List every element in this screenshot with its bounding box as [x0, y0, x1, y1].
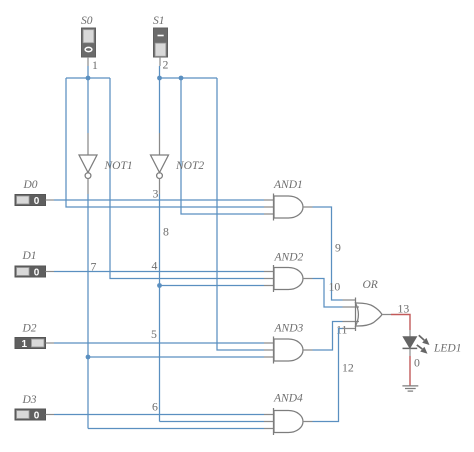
and gate AND3: [264, 337, 313, 364]
svg-text:0: 0: [34, 196, 40, 207]
D0 pin: [46, 199, 55, 201]
svg-text:9: 9: [335, 241, 341, 255]
led LED1: [403, 330, 462, 356]
wire S1 bus horizontal: [160, 77, 218, 79]
and gate AND2: [264, 265, 313, 292]
svg-text:D0: D0: [23, 179, 38, 191]
wire net 10 (AND2 out to OR in2): [313, 279, 343, 308]
not gate NOT1: [79, 133, 97, 194]
wire net 7 (NOT1 out, down to AND3 row3 and AND4 row3): [88, 194, 264, 429]
wire S1 right branch down to AND3 row2: [217, 78, 264, 350]
wire net 8 (NOT2 out, down to AND2 row3 and AND4 row2): [160, 194, 265, 422]
svg-text:1: 1: [22, 339, 28, 350]
svg-text:NOT1: NOT1: [104, 160, 133, 172]
wire S1 branch down to AND1 row3: [181, 78, 264, 214]
svg-text:11: 11: [336, 323, 347, 337]
svg-text:0: 0: [34, 267, 40, 278]
wire net 9 (AND1 out to OR in1): [313, 207, 343, 300]
svg-text:10: 10: [329, 280, 341, 294]
wire net 4 (D1 to AND2 row1): [54, 271, 264, 273]
svg-text:0: 0: [414, 356, 420, 370]
input D3: [15, 394, 46, 421]
switch S0 pin: [87, 57, 89, 66]
ground: [402, 386, 418, 391]
wire S0 bus horizontal: [66, 77, 110, 79]
wire net 2 (S1 to junction): [159, 66, 161, 78]
wire net 3 (D0 to AND1 row1): [54, 199, 264, 201]
svg-text:12: 12: [342, 361, 354, 375]
svg-text:S0: S0: [81, 15, 93, 27]
wire net 5 (D2 to AND3 row1): [54, 342, 264, 344]
switch S1 pin: [159, 57, 161, 66]
svg-text:1: 1: [92, 58, 98, 72]
wire net 1 (S0 to junction): [87, 66, 89, 78]
and gate AND4: [264, 408, 313, 435]
D3 pin: [46, 414, 55, 416]
and gate AND1: [264, 194, 313, 221]
wire S0 center down to NOT1 input: [87, 78, 89, 133]
junction net8 at AND2 row3: [157, 283, 162, 288]
wire net 13 (OR out to LED1): [391, 315, 410, 331]
junction S0: [86, 76, 91, 81]
input D1: [15, 250, 46, 278]
svg-text:5: 5: [151, 327, 157, 341]
svg-text:D3: D3: [22, 394, 37, 406]
svg-text:3: 3: [153, 187, 159, 201]
svg-text:D1: D1: [22, 250, 37, 262]
junction net7 at AND3 row3: [86, 355, 91, 360]
input D0: [15, 179, 46, 207]
svg-text:AND1: AND1: [273, 179, 303, 191]
svg-text:0: 0: [34, 410, 40, 421]
wire net 12 (AND4 out to OR in4): [313, 329, 343, 422]
junction S1 b: [179, 76, 184, 81]
svg-text:8: 8: [163, 225, 169, 239]
svg-text:OR: OR: [363, 279, 378, 291]
svg-text:D2: D2: [22, 323, 37, 335]
wire S1 center down to NOT2 input: [159, 78, 161, 133]
switch S0: [81, 15, 96, 57]
svg-text:2: 2: [163, 58, 169, 72]
wire S0 right branch down to AND2 row2: [110, 78, 264, 279]
wire net 0 (LED1 to ground): [409, 356, 411, 386]
junction S1 a: [157, 76, 162, 81]
svg-text:LED1: LED1: [433, 343, 461, 355]
svg-text:13: 13: [398, 302, 410, 316]
svg-text:4: 4: [152, 259, 158, 273]
or gate OR: [343, 298, 392, 332]
wire net 6 (D3 to AND4 row1): [54, 414, 264, 416]
wire S0 left branch down to AND1 row2: [66, 78, 264, 207]
D1 pin: [46, 271, 55, 273]
not gate NOT2: [151, 133, 169, 194]
D2 pin: [46, 342, 55, 344]
svg-text:S1: S1: [153, 15, 165, 27]
switch S1: [153, 15, 168, 57]
svg-text:NOT2: NOT2: [175, 160, 204, 172]
svg-text:AND3: AND3: [274, 323, 304, 335]
input D2: [15, 323, 46, 350]
svg-text:AND4: AND4: [273, 393, 303, 405]
wire net 11 (AND3 out to OR in3): [313, 322, 343, 351]
svg-text:AND2: AND2: [274, 252, 304, 264]
svg-text:6: 6: [152, 400, 158, 414]
